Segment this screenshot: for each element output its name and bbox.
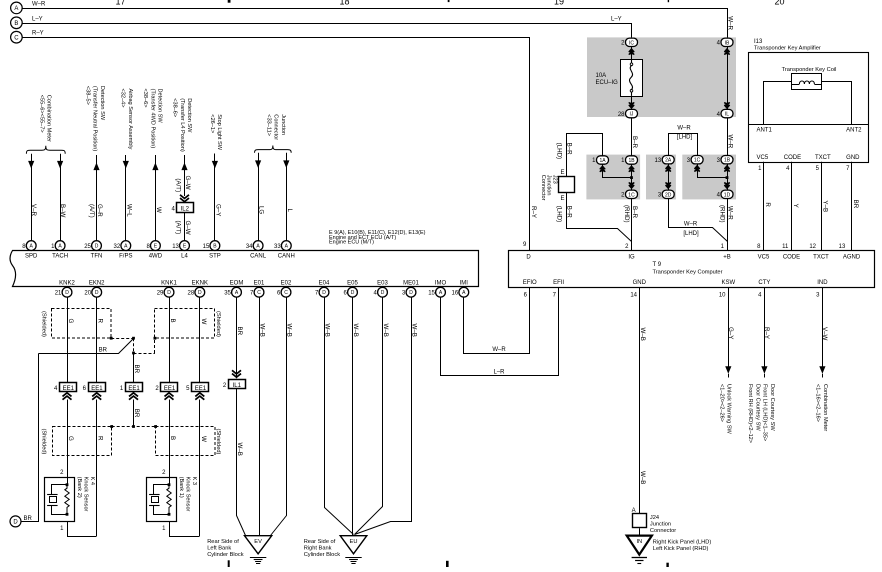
node B [11, 17, 23, 29]
svg-text:W–B: W–B [639, 328, 646, 341]
terminal 32 A F/PS [121, 241, 131, 251]
svg-text:Left Kick Panel (RHD): Left Kick Panel (RHD) [653, 546, 709, 552]
wire A W-R [23, 9, 728, 39]
svg-text:EE1: EE1 [91, 386, 103, 392]
svg-text:Engine ECU (M/T): Engine ECU (M/T) [329, 240, 374, 246]
svg-text:W–B: W–B [259, 324, 266, 337]
wire TFN G-R [96, 155, 98, 241]
svg-text:Rear Side of: Rear Side of [207, 539, 239, 545]
svg-text:LG: LG [258, 206, 265, 214]
terminal 3 1C right [694, 166, 699, 169]
svg-text:IL: IL [725, 112, 729, 118]
svg-text:GND: GND [846, 155, 860, 161]
wire GND W-B [639, 287, 641, 514]
wire EKN2 [96, 297, 98, 383]
svg-text:TFN: TFN [91, 254, 103, 260]
terminal 35 A EOM [232, 287, 242, 297]
terminal 29 D KNK1 [164, 287, 174, 297]
terminal 8 A SPD [26, 241, 36, 251]
svg-text:E05: E05 [347, 280, 358, 286]
svg-text:13: 13 [172, 244, 179, 250]
svg-text:<38–6>: <38–6> [142, 89, 148, 108]
svg-text:Detection SW: Detection SW [186, 98, 192, 133]
flow arrow above 2D [666, 185, 671, 188]
svg-text:35: 35 [224, 290, 231, 296]
grid tick top 2 [448, 0, 450, 2]
svg-text:IJ: IJ [630, 112, 634, 118]
terminal 3 2D [662, 190, 674, 198]
svg-text:2D: 2D [665, 192, 672, 198]
svg-text:D: D [198, 290, 202, 296]
flow arrow above IJ [629, 105, 634, 108]
wire J24 to IN [639, 528, 641, 535]
terminal 4 IB [721, 38, 733, 46]
svg-text:B: B [169, 436, 176, 440]
svg-text:W: W [200, 319, 207, 325]
svg-text:J24: J24 [650, 515, 659, 521]
svg-text:W–B: W–B [352, 324, 359, 337]
grid tick bottom 1 [228, 560, 230, 567]
svg-text:L4: L4 [181, 254, 188, 260]
svg-text:D: D [526, 254, 531, 260]
svg-text:13: 13 [839, 244, 846, 250]
wire EKNK lower [199, 400, 201, 537]
wire CANH L [286, 153, 288, 241]
wire EKNK [199, 297, 201, 383]
svg-text:<1–20><2–26>: <1–20><2–26> [718, 384, 724, 422]
svg-text:AGND: AGND [843, 254, 861, 260]
svg-text:D: D [381, 290, 385, 296]
svg-text:CANL: CANL [250, 254, 267, 260]
svg-text:12: 12 [809, 244, 816, 250]
svg-text:Detection SW: Detection SW [99, 86, 105, 121]
junction dot shield 4 [154, 337, 157, 340]
terminal 15 A IMO [436, 287, 446, 297]
svg-text:Junction: Junction [280, 114, 286, 135]
junction dot lower 3 [154, 425, 157, 428]
wire KSW G-Y [728, 287, 730, 367]
svg-text:13: 13 [655, 158, 662, 164]
svg-text:EKNK: EKNK [192, 280, 208, 286]
svg-text:18: 18 [339, 0, 349, 6]
svg-text:SPD: SPD [25, 254, 38, 260]
terminal 2 IC [626, 38, 638, 46]
svg-text:D: D [95, 290, 99, 296]
svg-text:(RHD): (RHD) [719, 205, 726, 223]
terminal 34 A CANL [253, 241, 263, 251]
svg-text:B–W: B–W [59, 204, 66, 218]
wire IL to 1B right W-R [727, 118, 729, 156]
svg-text:ECU–IG: ECU–IG [596, 80, 619, 86]
svg-text:A: A [14, 6, 18, 12]
svg-text:CODE: CODE [784, 155, 801, 161]
svg-text:T 9: T 9 [653, 262, 662, 268]
wire IJ to 1B B-R [631, 118, 633, 156]
svg-text:Y: Y [792, 204, 799, 208]
wire L4 G-W lower [184, 213, 186, 241]
svg-text:L–R: L–R [493, 369, 505, 375]
junction connector J23 [559, 177, 575, 193]
terminal 8 E 4WD [151, 241, 161, 251]
terminal 1 1A [600, 166, 605, 169]
wire ME01 W-B [355, 298, 412, 535]
svg-text:C: C [284, 290, 288, 296]
svg-text:CODE: CODE [783, 254, 800, 260]
svg-text:EE1: EE1 [128, 386, 140, 392]
svg-text:D: D [95, 244, 99, 250]
wire VC5 R [763, 162, 765, 251]
flow arrow above IL2 [180, 198, 189, 202]
svg-text:W–B: W–B [639, 471, 646, 484]
svg-text:IG: IG [628, 254, 635, 260]
wire IC to fuse [631, 47, 633, 60]
svg-text:B–R: B–R [565, 143, 572, 156]
wire 2A to 2D [668, 164, 670, 190]
terminal 33 A CANH [281, 241, 291, 251]
svg-text:15: 15 [428, 290, 435, 296]
terminal 28 IJ [626, 109, 638, 117]
svg-text:TXCT: TXCT [813, 254, 829, 260]
svg-text:BR: BR [133, 409, 140, 418]
svg-text:Door Courtesy SW: Door Courtesy SW [754, 384, 760, 431]
svg-text:(LHD): (LHD) [555, 143, 562, 160]
junction dot lower 2 [132, 425, 135, 428]
svg-text:Rear Side of: Rear Side of [304, 539, 336, 545]
terminal 20 D EKN2 [92, 287, 102, 297]
svg-text:(A/T): (A/T) [88, 204, 95, 218]
node A [11, 2, 23, 14]
svg-text:ANT2: ANT2 [846, 127, 862, 133]
svg-text:ME01: ME01 [403, 280, 419, 286]
svg-text:CTY: CTY [758, 280, 770, 286]
svg-text:W–R: W–R [32, 1, 46, 7]
svg-text:Junction: Junction [650, 522, 671, 528]
wire 1B to 1D right [727, 164, 729, 190]
flow arrow under IB [724, 49, 729, 52]
svg-text:20: 20 [84, 290, 91, 296]
svg-text:Front LH (LHD)<1–35>: Front LH (LHD)<1–35> [762, 384, 768, 441]
svg-text:BR: BR [852, 200, 859, 209]
svg-text:KNK2: KNK2 [59, 280, 75, 286]
svg-text:CANH: CANH [278, 254, 295, 260]
terminal 28 D EKNK [195, 287, 205, 297]
svg-text:[LHD]: [LHD] [683, 231, 699, 237]
svg-text:K 3: K 3 [191, 477, 197, 485]
wire KNK2 lower [67, 400, 69, 485]
engine ECU box [10, 251, 478, 287]
svg-text:D: D [65, 290, 69, 296]
svg-text:L–Y: L–Y [32, 16, 43, 22]
svg-text:W–B: W–B [324, 324, 331, 337]
svg-text:EFIO: EFIO [523, 280, 537, 286]
svg-text:G–Y: G–Y [214, 204, 221, 216]
wire BR drain diagonal [39, 339, 134, 354]
svg-text:D: D [409, 290, 413, 296]
svg-text:G: G [67, 319, 74, 324]
wire EOM BR [236, 297, 238, 378]
svg-text:Transponder Key Amplifier: Transponder Key Amplifier [754, 45, 821, 51]
amplifier I13 box [749, 53, 869, 163]
transponder key coil box [792, 74, 822, 90]
terminal 4 IL [721, 109, 733, 117]
wire GND BR [851, 162, 853, 251]
svg-text:EFII: EFII [553, 280, 564, 286]
wire CODE Y [791, 162, 793, 251]
svg-text:Y–B: Y–B [822, 200, 829, 212]
svg-text:4WD: 4WD [149, 254, 163, 260]
terminal 3 1B right [721, 156, 733, 164]
svg-text:(A/T): (A/T) [174, 178, 181, 192]
svg-text:B: B [14, 21, 18, 27]
junction dot left block [630, 176, 633, 179]
wire CANL LG [258, 153, 260, 241]
svg-text:W–B: W–B [411, 324, 418, 337]
svg-text:15: 15 [203, 244, 210, 250]
flow arrow under 2A [666, 166, 671, 169]
svg-text:(Bank 2): (Bank 2) [76, 477, 82, 498]
flow arrow under IC [629, 49, 634, 52]
svg-text:GND: GND [633, 280, 647, 286]
connector block grey middle [646, 155, 676, 200]
wire fuse to IJ [631, 96, 633, 110]
svg-text:E03: E03 [377, 280, 388, 286]
svg-text:IMI: IMI [460, 280, 469, 286]
svg-text:1D: 1D [724, 192, 731, 198]
svg-text:Connector: Connector [273, 114, 279, 140]
ground EU [340, 536, 367, 554]
svg-text:G–W: G–W [184, 221, 191, 235]
junction connector J24 [633, 514, 647, 528]
wire 4WD W [155, 155, 157, 241]
svg-text:(Transfer L4 Position): (Transfer L4 Position) [179, 98, 185, 152]
svg-text:Connector: Connector [540, 175, 546, 201]
svg-text:20: 20 [774, 0, 784, 6]
svg-text:16: 16 [452, 290, 459, 296]
svg-text:VC5: VC5 [757, 155, 769, 161]
svg-text:V–W: V–W [821, 327, 828, 341]
svg-text:2A: 2A [665, 158, 672, 164]
junction 6 EE1 [89, 383, 106, 392]
svg-text:G–R: G–R [96, 204, 103, 217]
svg-text:Left Bank: Left Bank [207, 546, 231, 552]
svg-text:(Shielded): (Shielded) [40, 311, 46, 337]
svg-text:21: 21 [55, 290, 62, 296]
svg-text:EE1: EE1 [164, 386, 176, 392]
svg-text:EKN2: EKN2 [89, 280, 105, 286]
svg-text:W–B: W–B [382, 324, 389, 337]
terminal 4 1D [721, 190, 733, 198]
svg-text:W–L: W–L [125, 204, 132, 217]
svg-text:B–R: B–R [631, 206, 638, 219]
shielded cable lower left [53, 427, 112, 456]
svg-text:I13: I13 [754, 39, 763, 45]
flow arrow above IL1 [232, 374, 241, 378]
svg-text:IC: IC [629, 40, 634, 46]
terminal 7 C E01 [254, 287, 264, 297]
svg-text:Transponder Key Computer: Transponder Key Computer [653, 270, 723, 276]
svg-text:(Shielded): (Shielded) [215, 429, 221, 455]
wire F/PS W-L [125, 155, 127, 241]
wire B L-Y [23, 24, 632, 39]
svg-text:E: E [561, 196, 565, 202]
wire 1C to IG [631, 199, 633, 251]
svg-text:Cylinder Block: Cylinder Block [304, 552, 341, 558]
amplifier divider [749, 124, 869, 126]
svg-text:11: 11 [782, 244, 789, 250]
wire TXCT Y-B [821, 162, 823, 251]
svg-text:<55–6><55–7>: <55–6><55–7> [38, 95, 44, 133]
wire KNK1 [169, 297, 171, 383]
wire E04 W-B [325, 298, 354, 535]
svg-text:(RHD): (RHD) [623, 205, 630, 223]
svg-text:L–Y: L–Y [611, 17, 622, 23]
junction 2 EE1 [161, 383, 178, 392]
svg-text:R–Y: R–Y [530, 206, 537, 218]
svg-text:R: R [764, 202, 771, 207]
terminal 7 D E04 [319, 287, 329, 297]
junction 4 EE1 [60, 383, 77, 392]
svg-text:(Transfer Neutral Position): (Transfer Neutral Position) [92, 86, 98, 152]
junction 5 EE1 [192, 383, 209, 392]
terminal 13 2A [662, 156, 674, 164]
svg-text:G–W: G–W [184, 176, 191, 190]
wire E02 W-B [271, 298, 287, 536]
wire J23 to 1A [567, 134, 603, 177]
svg-text:Cylinder Block: Cylinder Block [207, 552, 244, 558]
svg-text:Airbag Sensor Assembly: Airbag Sensor Assembly [127, 89, 133, 150]
svg-text:R: R [97, 319, 104, 324]
svg-text:19: 19 [554, 0, 564, 6]
svg-text:BR: BR [24, 516, 33, 522]
svg-text:32: 32 [114, 244, 121, 250]
terminal 4 D E03 [378, 287, 388, 297]
wire coil to ANT2 [822, 82, 852, 125]
svg-text:+B: +B [723, 254, 731, 260]
terminal 25 D TFN [92, 241, 102, 251]
flow arrow under 1B right [724, 166, 729, 169]
wire TACH B-W [60, 154, 62, 241]
node D terminal [10, 516, 21, 527]
svg-text:1C: 1C [694, 158, 701, 164]
wire IL1 to EV [237, 389, 246, 536]
wire CTY R-Y [764, 287, 766, 367]
svg-text:W–R: W–R [677, 126, 691, 132]
svg-text:BR: BR [133, 365, 140, 374]
knock sensor K4 Bank 2 [45, 478, 75, 522]
svg-text:B–R: B–R [565, 206, 572, 219]
svg-text:R–Y: R–Y [32, 31, 44, 37]
terminal 21 D KNK2 [62, 287, 72, 297]
flow arrow above 1C [629, 185, 634, 188]
wire IMO to EFII L-R [441, 288, 559, 376]
svg-text:IL1: IL1 [233, 383, 242, 389]
wire K4 pin1 to EKN2 [68, 522, 97, 537]
svg-text:25: 25 [84, 244, 91, 250]
svg-text:<26–1>: <26–1> [209, 114, 215, 133]
svg-text:14: 14 [630, 293, 637, 299]
svg-text:Transponder Key Coil: Transponder Key Coil [782, 67, 837, 73]
wire STP G-Y [214, 154, 216, 241]
svg-text:(Shielded): (Shielded) [40, 429, 46, 455]
svg-text:W–R: W–R [492, 347, 506, 353]
svg-text:B–R: B–R [631, 136, 638, 149]
svg-text:(LHD): (LHD) [555, 206, 562, 223]
knock sensor K3 Bank 1 [147, 478, 177, 522]
svg-text:[LHD]: [LHD] [677, 134, 693, 140]
grid tick top 3 [668, 0, 669, 2]
svg-text:<38–5>: <38–5> [84, 86, 90, 105]
svg-text:BR: BR [236, 327, 243, 336]
terminal 1 A TACH [55, 241, 65, 251]
svg-text:1A: 1A [599, 158, 606, 164]
junction dot shield 2 [132, 337, 135, 340]
svg-text:(Bank 1): (Bank 1) [178, 477, 184, 498]
svg-text:K 4: K 4 [89, 477, 95, 485]
svg-text:E: E [561, 170, 565, 176]
svg-text:Knock Sensor: Knock Sensor [185, 477, 191, 512]
bracket wire 2A to 1C W-R LHD [669, 134, 698, 156]
svg-text:D: D [351, 290, 355, 296]
svg-text:L: L [286, 209, 293, 213]
svg-text:VC5: VC5 [758, 254, 770, 260]
flow arrow under 1B [629, 166, 634, 169]
transponder key computer T9 box [509, 251, 875, 288]
svg-text:<32–4>: <32–4> [120, 89, 126, 108]
svg-text:EE1: EE1 [195, 386, 207, 392]
svg-text:17: 17 [115, 0, 125, 6]
svg-text:E02: E02 [281, 280, 292, 286]
terminal 1 1B [626, 156, 638, 164]
svg-text:Door Courtesy SW: Door Courtesy SW [769, 384, 775, 431]
junction block grey (fuse) [587, 37, 736, 117]
svg-text:W: W [155, 207, 162, 213]
wire L4 G-W upper [184, 155, 186, 196]
ground IN hatch [632, 557, 647, 559]
ground EV hatch [250, 557, 266, 559]
svg-text:E04: E04 [319, 280, 330, 286]
grid tick top 1 [228, 0, 231, 3]
svg-text:F/PS: F/PS [119, 254, 132, 260]
wire IMI to EFIO W-R [464, 288, 530, 354]
svg-text:W–R: W–R [727, 16, 734, 30]
terminal 16 A IMI [459, 287, 469, 297]
svg-text:IL2: IL2 [181, 206, 190, 212]
svg-text:D: D [322, 290, 326, 296]
wire E03 W-B [355, 298, 383, 535]
wire 1B to 1C [631, 164, 633, 190]
svg-text:W–B: W–B [236, 443, 243, 456]
svg-text:29: 29 [157, 290, 164, 296]
wire BR to EE1 [133, 353, 135, 383]
svg-text:E01: E01 [254, 280, 265, 286]
wire E05 W-B [352, 297, 354, 536]
svg-text:1B: 1B [724, 158, 731, 164]
svg-text:B: B [169, 319, 176, 323]
connector block grey right [682, 155, 736, 200]
shield drain dashes upper [111, 338, 133, 340]
svg-text:G–Y: G–Y [727, 327, 734, 339]
svg-text:EE1: EE1 [63, 386, 75, 392]
wire EKN2 lower [96, 400, 98, 537]
svg-text:Detection SW: Detection SW [157, 89, 163, 124]
svg-text:W: W [200, 436, 207, 442]
junction dot shield 1 [110, 337, 113, 340]
brace junction connector [255, 146, 292, 153]
terminal 13 E L4 [180, 241, 190, 251]
svg-text:10: 10 [719, 293, 726, 299]
svg-text:IB: IB [725, 40, 730, 46]
svg-text:V–R: V–R [30, 204, 37, 217]
